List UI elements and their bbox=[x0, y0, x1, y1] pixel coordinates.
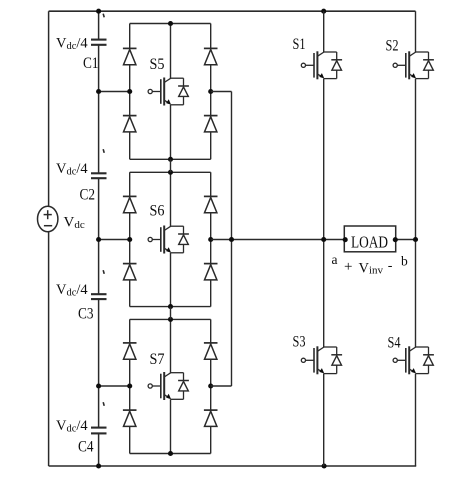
junction: cell S6 right mid bbox=[208, 237, 213, 242]
diode lower-left of cell S5 bbox=[123, 115, 137, 117]
junction: cell S5 left mid bbox=[127, 89, 132, 94]
junction: cell S6 bottom centre bbox=[168, 304, 173, 309]
junction: cap string / top bus bbox=[96, 9, 101, 14]
diode lower-right of cell S7 bbox=[204, 409, 218, 411]
H-bridge right leg wire bbox=[415, 11, 417, 52]
diode upper-right of cell S5 bbox=[204, 47, 218, 49]
junction: cap string / bottom bus bbox=[96, 463, 101, 468]
switch S5 (IGBT with antiparallel diode) bbox=[148, 89, 152, 93]
junction: centre link node bbox=[229, 237, 234, 242]
polarity mark for C4 bbox=[103, 402, 104, 406]
junction: node a bbox=[321, 237, 326, 242]
LOAD box bbox=[344, 226, 395, 252]
junction: cell S5 bottom centre bbox=[168, 157, 173, 162]
diode lower-left of cell S7 bbox=[123, 409, 137, 411]
polarity mark for C3 bbox=[103, 270, 104, 274]
junction: H-bridge left leg / bottom bus bbox=[322, 463, 327, 468]
junction: cell S6 top centre bbox=[168, 170, 173, 175]
diode lower-right of cell S5 bbox=[204, 115, 218, 117]
inter-cell link S5-S6 bbox=[170, 159, 172, 172]
cell S6: bottom wire bbox=[130, 306, 211, 308]
wire: S5 output down to centre node bbox=[231, 92, 233, 240]
switch S4 (IGBT with antiparallel diode) bbox=[393, 358, 397, 362]
junction: cell S6 left mid bbox=[127, 237, 132, 242]
inter-cell link S6-S7 bbox=[170, 307, 172, 320]
capacitor string wire bbox=[98, 11, 100, 39]
junction: cell S7 left mid bbox=[127, 383, 132, 388]
svg-text:C3: C3 bbox=[78, 305, 94, 322]
wire: S5 output right bbox=[211, 91, 232, 93]
svg-text:C1: C1 bbox=[83, 55, 99, 72]
switch S3 (IGBT with antiparallel diode) bbox=[301, 358, 305, 362]
node: cap tap to cell S7 left mid bbox=[99, 385, 130, 387]
polarity mark for C1 bbox=[103, 14, 104, 18]
cell S7: centre vertical (emitter side) bbox=[170, 399, 172, 453]
svg-text:LOAD: LOAD bbox=[351, 233, 388, 252]
svg-text:S7: S7 bbox=[150, 351, 165, 368]
node: cap tap to cell S6 left mid bbox=[99, 239, 130, 241]
svg-text:a: a bbox=[332, 252, 338, 267]
diode upper-left of cell S5 bbox=[123, 47, 137, 49]
junction: LOAD right terminal bbox=[393, 237, 398, 242]
diode lower-right of cell S6 bbox=[204, 263, 218, 265]
wire: S7 output right bbox=[211, 385, 232, 387]
cell S7: bottom wire bbox=[130, 453, 211, 455]
svg-text:C4: C4 bbox=[78, 438, 94, 455]
cell S5: centre vertical (emitter side) bbox=[170, 105, 172, 160]
svg-text:S6: S6 bbox=[150, 203, 165, 220]
diode upper-left of cell S7 bbox=[123, 342, 137, 344]
svg-text:+: + bbox=[344, 259, 352, 275]
junction: cell S5 right mid bbox=[208, 89, 213, 94]
cell S5: left branch wire bbox=[129, 24, 131, 160]
capacitor C1 bbox=[91, 39, 107, 41]
cell S5: centre vertical (collector side) bbox=[170, 24, 172, 79]
junction: cell S7 top centre bbox=[168, 317, 173, 322]
svg-text:-: - bbox=[388, 259, 393, 274]
switch S2 (IGBT with antiparallel diode) bbox=[393, 63, 397, 67]
capacitor C3 bbox=[91, 293, 107, 295]
svg-text:S2: S2 bbox=[386, 38, 399, 55]
svg-text:S5: S5 bbox=[150, 56, 165, 73]
H-bridge left leg wire bbox=[323, 11, 325, 52]
switch S1 (IGBT with antiparallel diode) bbox=[301, 63, 305, 67]
switch S6 (IGBT with antiparallel diode) bbox=[148, 237, 152, 241]
diode upper-right of cell S7 bbox=[204, 342, 218, 344]
svg-text:S4: S4 bbox=[388, 335, 401, 352]
junction: H-bridge left leg / top bus bbox=[321, 9, 326, 14]
cell S6: right branch wire bbox=[210, 172, 212, 306]
svg-text:S3: S3 bbox=[293, 334, 306, 351]
cell S6: centre vertical (emitter side) bbox=[170, 253, 172, 307]
polarity mark for C2 bbox=[103, 149, 104, 153]
wire: LOAD to node b bbox=[396, 239, 416, 241]
svg-text:b: b bbox=[401, 254, 408, 269]
diode lower-left of cell S6 bbox=[123, 263, 137, 265]
cell S7: left branch wire bbox=[129, 319, 131, 453]
diode upper-left of cell S6 bbox=[123, 195, 137, 197]
svg-text:C2: C2 bbox=[80, 186, 96, 203]
diode upper-right of cell S6 bbox=[204, 195, 218, 197]
junction: LOAD left terminal bbox=[343, 237, 348, 242]
cell S6: centre vertical (collector side) bbox=[170, 172, 172, 226]
left wire (source branch) bbox=[48, 11, 50, 206]
junction: node b bbox=[413, 237, 418, 242]
junction: cell S7 right mid bbox=[208, 383, 213, 388]
capacitor C2 bbox=[91, 172, 107, 174]
cell S7: right branch wire bbox=[210, 319, 212, 453]
junction: cell S7 bottom centre bbox=[168, 451, 173, 456]
bottom bus wire bbox=[49, 465, 417, 467]
wire: centre output to H-bridge node a bbox=[211, 239, 345, 241]
cell S5: bottom wire bbox=[130, 158, 211, 160]
cell S6: left branch wire bbox=[129, 172, 131, 306]
capacitor C4 bbox=[91, 427, 107, 429]
top bus wire bbox=[49, 10, 416, 12]
junction: cell S5 top centre bbox=[168, 21, 173, 26]
cell S7: top wire bbox=[130, 318, 211, 320]
svg-text:S1: S1 bbox=[293, 36, 306, 53]
cell S7: centre vertical (collector side) bbox=[170, 319, 172, 372]
switch S7 (IGBT with antiparallel diode) bbox=[148, 384, 152, 388]
wire: S7 output up to centre node bbox=[231, 240, 233, 387]
cell S5: right branch wire bbox=[210, 24, 212, 160]
DC source Vdc bbox=[38, 206, 58, 231]
node: cap tap to cell S5 left mid bbox=[99, 91, 130, 93]
cell S6: top wire bbox=[130, 171, 211, 173]
cell S5: top wire bbox=[130, 23, 211, 25]
